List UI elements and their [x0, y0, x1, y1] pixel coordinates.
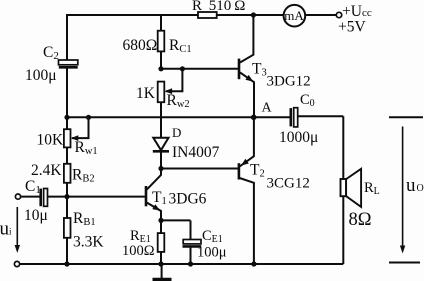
svg-text:IN4007: IN4007	[172, 144, 220, 161]
wire top rail middle segment	[217, 14, 284, 16]
label C1 10u	[24, 178, 48, 224]
wire C0 to right rail	[298, 115, 344, 117]
node junction T1 emitter	[158, 218, 163, 223]
svg-text:R 510 Ω: R 510 Ω	[192, 0, 245, 14]
terminal +Ucc	[336, 12, 341, 17]
svg-text:100Ω: 100Ω	[122, 243, 155, 259]
label R 510	[192, 0, 245, 14]
node junction left rail mid	[64, 115, 69, 120]
capacitor C2	[59, 60, 78, 67]
wire left rail lower	[66, 67, 68, 264]
node A junction	[251, 115, 257, 121]
svg-text:1K: 1K	[136, 85, 156, 102]
svg-text:3.3K: 3.3K	[73, 234, 104, 251]
node junction T2 collector bottom	[251, 261, 256, 266]
speaker RL 8 ohm	[341, 169, 362, 207]
label T2 3CG12	[250, 162, 310, 192]
capacitor C1	[41, 189, 48, 207]
wire top rail left segment	[66, 14, 198, 16]
svg-text:8Ω: 8Ω	[349, 210, 372, 230]
capacitor C0	[291, 108, 298, 127]
svg-text:10K: 10K	[37, 132, 65, 149]
node junction wiper tap RW2	[180, 66, 185, 71]
node junction RE1 bottom	[158, 261, 163, 266]
wire bottom rail	[20, 263, 344, 265]
potentiometer RW2 1K	[158, 69, 183, 102]
node junction bottom left rail	[64, 261, 69, 266]
label C2 100u	[25, 44, 59, 84]
svg-text:100μ: 100μ	[197, 245, 227, 261]
svg-text:A: A	[262, 101, 273, 116]
label CE1 100u	[197, 228, 227, 261]
wire T2 base	[161, 168, 238, 170]
wire feedback mid rail y=117	[67, 116, 291, 118]
label RE1 100	[122, 228, 155, 259]
label +Ucc +5V	[338, 3, 372, 36]
node junction top rail	[251, 12, 256, 17]
wire C1 to T1 base	[48, 196, 146, 198]
svg-text:mA: mA	[284, 8, 304, 23]
transistor Q1 T1 3DG6	[146, 170, 161, 221]
label RB1 3.3K	[73, 210, 104, 251]
svg-text:100μ: 100μ	[25, 67, 57, 84]
label T1 3DG6	[152, 189, 207, 208]
wire input to C1	[21, 196, 40, 198]
svg-text:3DG12: 3DG12	[267, 74, 311, 90]
label uo	[406, 175, 424, 196]
label 680 RC1	[123, 37, 192, 55]
wire ammeter to supply terminal	[305, 14, 336, 16]
label node A	[262, 101, 273, 116]
potentiometer RW1 10K	[64, 117, 89, 147]
transistor Q2 T2 3CG12	[239, 117, 254, 264]
wire right rail	[342, 116, 344, 264]
node junction diode cathode	[158, 166, 163, 171]
svg-text:680Ω: 680Ω	[123, 37, 158, 54]
capacitor CE1	[183, 220, 202, 264]
output tick bottom	[389, 262, 420, 264]
svg-text:3CG12: 3CG12	[267, 176, 310, 192]
wire T3 base	[161, 68, 238, 70]
label D IN4007	[172, 125, 220, 161]
wire emitter to CE1	[161, 219, 191, 221]
label 2.4K RB2	[31, 162, 95, 185]
resistor RE1 100 ohm	[158, 220, 165, 264]
node junction C1 left rail	[64, 194, 69, 199]
input terminal top	[15, 194, 20, 199]
svg-text:2.4K: 2.4K	[31, 162, 62, 179]
label 10K RW1	[37, 132, 98, 158]
label ui	[0, 219, 12, 240]
input signal arrow ui	[15, 207, 20, 253]
label T3 3DG12	[252, 61, 311, 90]
resistor R1 510 ohm box	[198, 12, 217, 18]
node junction wiper tap	[86, 115, 91, 120]
label 1K RW2	[136, 85, 190, 110]
wire left rail upper	[66, 14, 68, 60]
ammeter mA	[284, 5, 306, 27]
output arrow uo	[400, 127, 405, 254]
transistor Q3 T3 3DG12	[239, 15, 254, 117]
ground	[153, 264, 172, 280]
svg-text:10μ: 10μ	[24, 207, 48, 224]
resistor RB2 2.4K	[64, 164, 71, 183]
svg-text:1000μ: 1000μ	[279, 129, 318, 146]
diode D IN4007	[153, 138, 169, 169]
svg-text:D: D	[172, 125, 181, 140]
wire RW2 to diode	[160, 102, 162, 138]
resistor RB1 3.3K	[64, 218, 71, 238]
svg-text:3DG6: 3DG6	[169, 191, 207, 208]
svg-text:+5V: +5V	[338, 19, 366, 36]
node junction RC1 bottom	[158, 66, 163, 71]
label RL 8 ohm	[349, 180, 380, 230]
label C0 1000u	[279, 92, 318, 146]
node junction CE1 bottom	[188, 261, 193, 266]
resistor RC1 680 ohm	[158, 14, 165, 69]
input terminal bottom	[14, 261, 19, 266]
output tick top	[389, 116, 423, 118]
